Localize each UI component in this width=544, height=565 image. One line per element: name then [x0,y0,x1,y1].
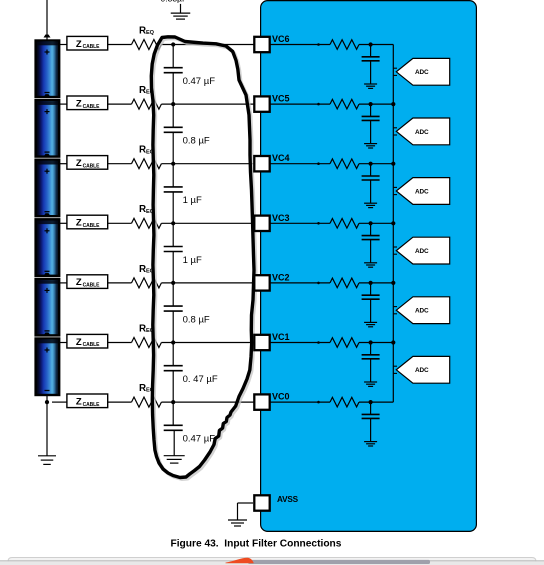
svg-text:VC6: VC6 [272,34,290,44]
svg-text:0.8 µF: 0.8 µF [183,314,210,325]
svg-text:ADC: ADC [415,129,429,136]
svg-text:CABLE: CABLE [83,163,100,169]
svg-text:0.33µF: 0.33µF [161,0,188,3]
svg-text:Z: Z [76,158,82,169]
svg-text:1 µF: 1 µF [183,255,202,266]
svg-text:Z: Z [76,337,82,348]
svg-text:Z: Z [76,39,82,50]
svg-text:VC2: VC2 [272,272,290,282]
svg-text:0.8 µF: 0.8 µF [183,136,210,147]
svg-text:ADC: ADC [415,248,429,255]
svg-text:VC1: VC1 [272,332,290,342]
svg-text:VC3: VC3 [272,213,290,223]
svg-text:CABLE: CABLE [83,402,100,408]
svg-text:Z: Z [76,277,82,288]
svg-text:ADC: ADC [415,188,429,195]
svg-text:CABLE: CABLE [83,342,100,348]
svg-text:0.47 µF: 0.47 µF [183,76,216,87]
svg-text:ADC: ADC [415,367,429,374]
svg-text:Z: Z [76,396,82,407]
svg-text:VC5: VC5 [272,94,290,104]
svg-text:CABLE: CABLE [83,104,100,110]
svg-text:AVSS: AVSS [277,495,299,504]
svg-text:Z: Z [76,218,82,229]
svg-text:CABLE: CABLE [83,223,100,229]
svg-text:ADC: ADC [415,308,429,315]
svg-text:0.47 µF: 0.47 µF [183,434,216,445]
svg-text:VC4: VC4 [272,153,290,163]
svg-text:1 µF: 1 µF [183,195,202,206]
svg-text:Figure 43. Input Filter Conne: Figure 43. Input Filter Connections [171,539,342,550]
svg-text:VC0: VC0 [272,392,290,402]
svg-text:Z: Z [76,98,82,109]
svg-text:EQ: EQ [146,30,155,36]
svg-text:0. 47 µF: 0. 47 µF [183,374,218,385]
svg-text:ADC: ADC [415,69,429,76]
svg-text:CABLE: CABLE [83,44,100,50]
svg-text:CABLE: CABLE [83,283,100,289]
